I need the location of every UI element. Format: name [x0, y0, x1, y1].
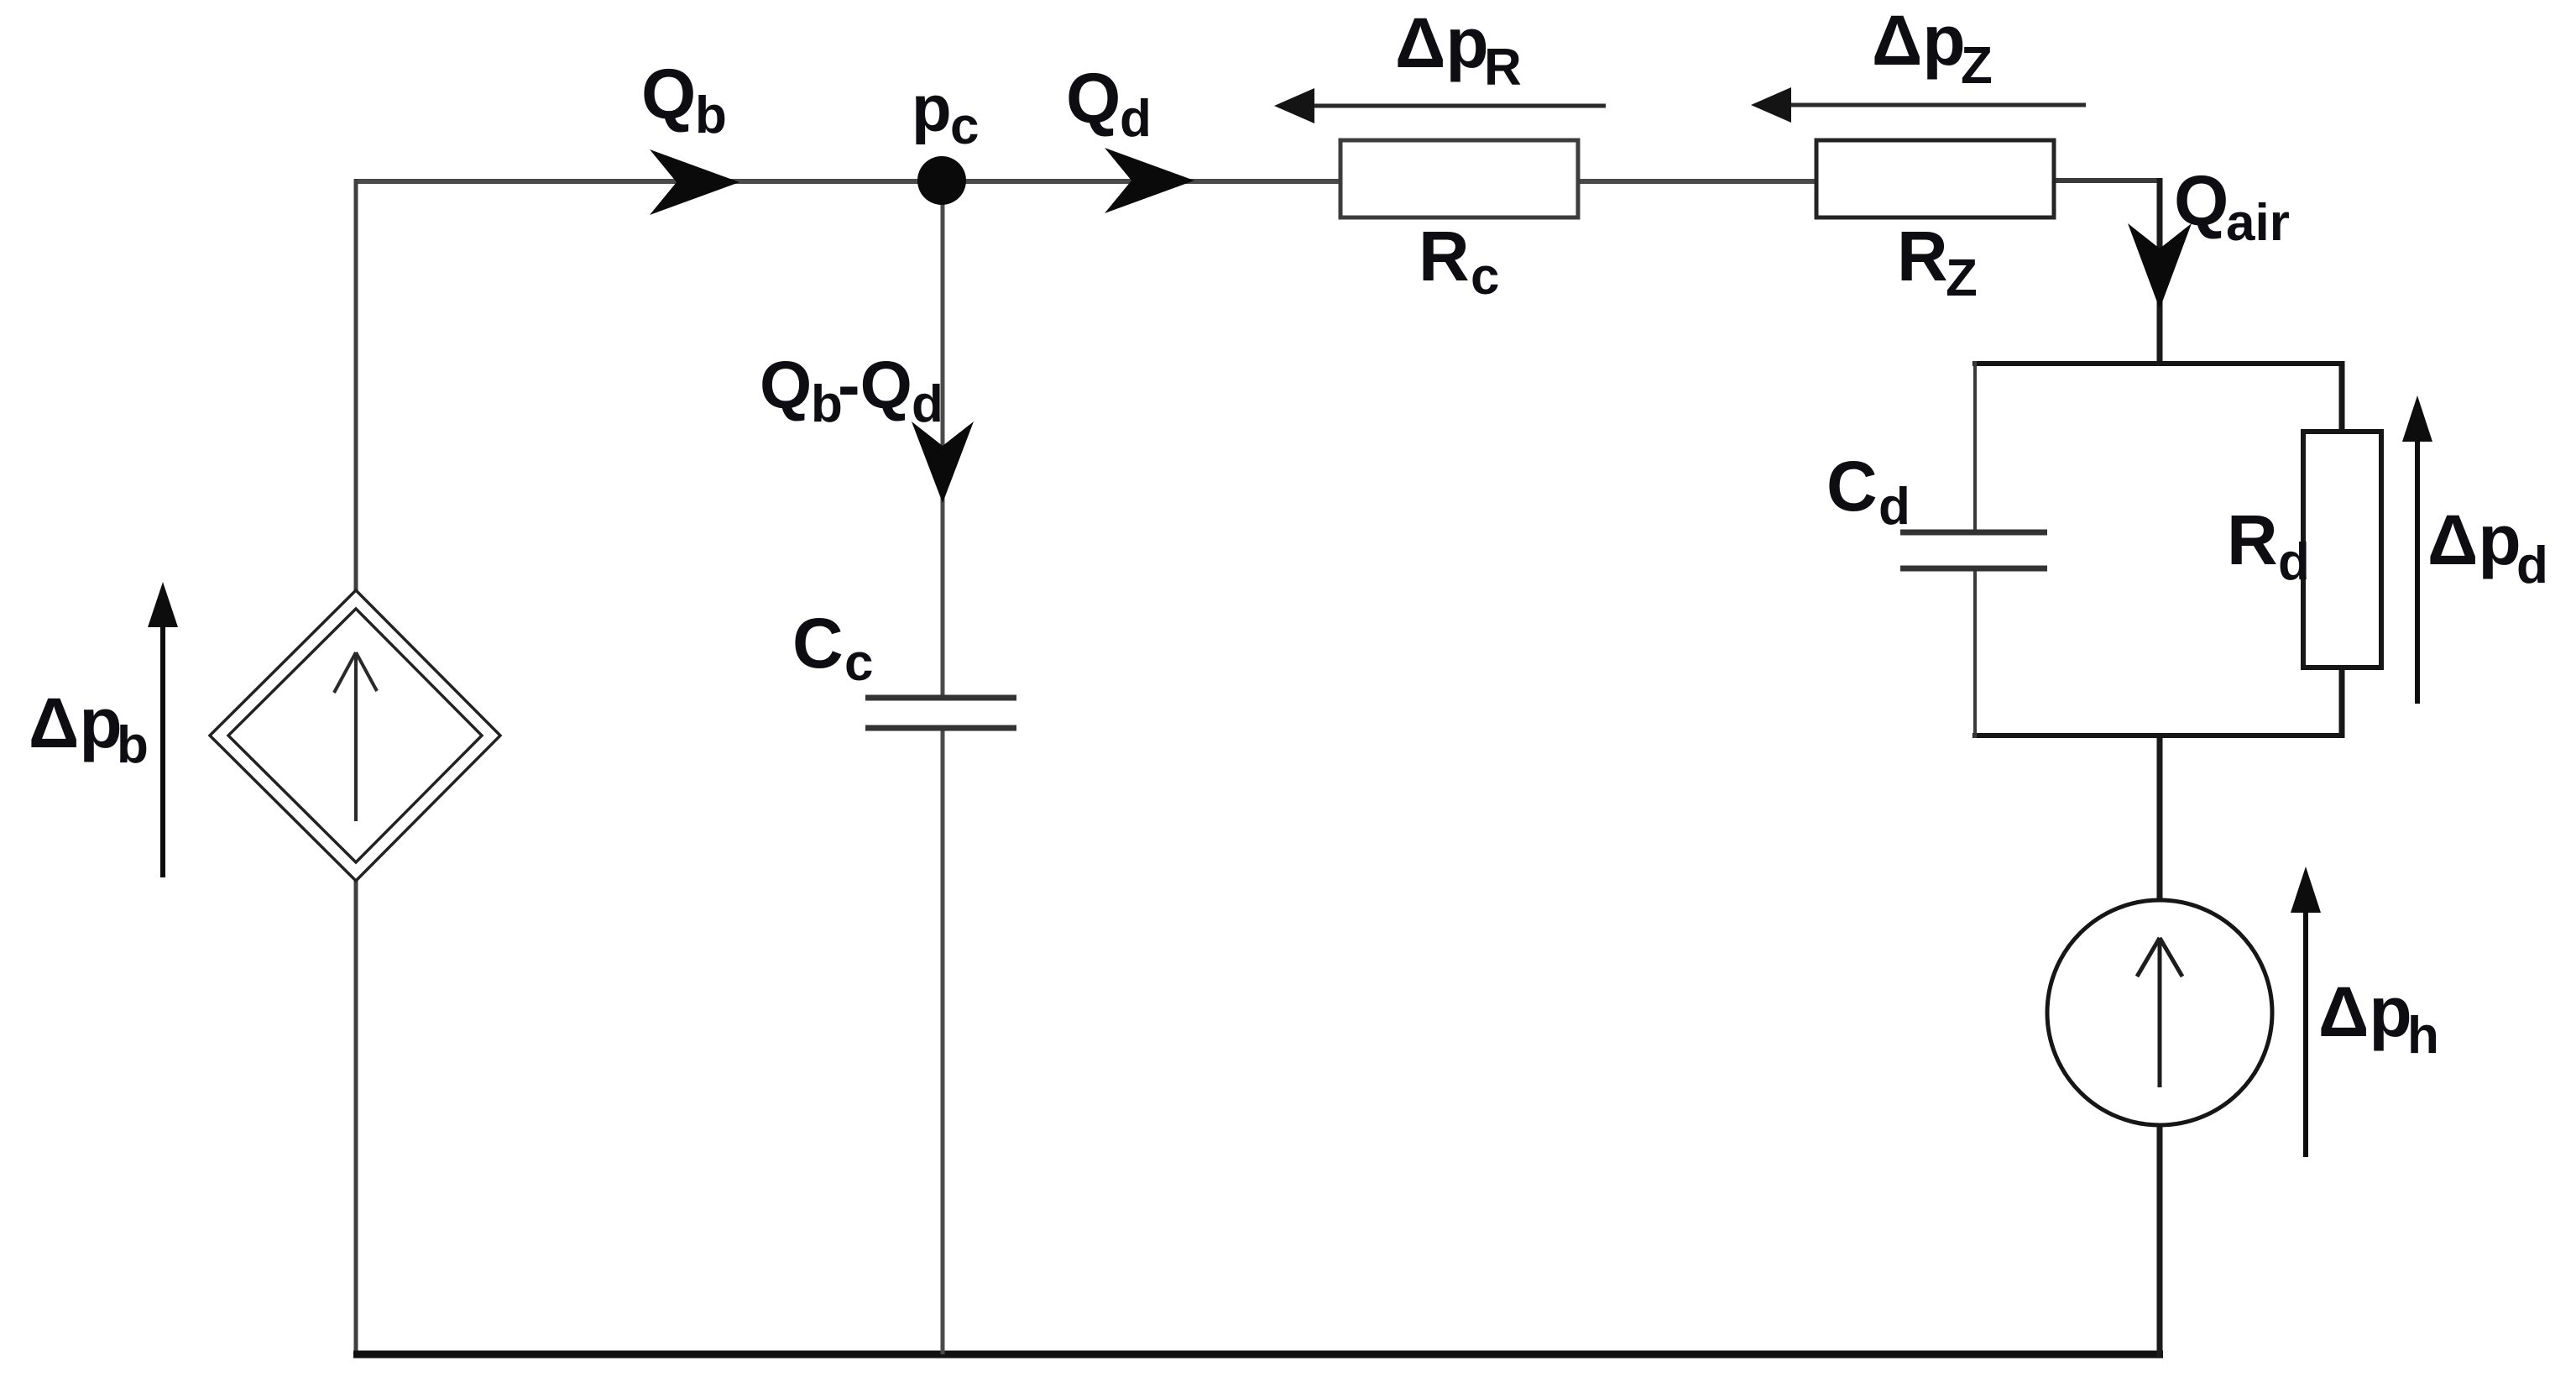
svg-text:d: d [912, 375, 943, 433]
dependent source (diamond) inner outline [228, 609, 482, 862]
svg-text:-Q: -Q [838, 348, 912, 422]
wire from box bottom to circle source [2157, 736, 2163, 900]
svg-text:Z: Z [1946, 249, 1978, 307]
dependent source (diamond) outer outline [210, 590, 500, 881]
label dPd [2427, 500, 2548, 594]
svg-text:Q: Q [641, 55, 696, 134]
label dPZ [1872, 1, 1993, 95]
pressure arrow dPZ (left, above Rz) [1751, 87, 2086, 123]
capacitor Cc plates [865, 698, 1016, 728]
svg-text:R: R [1897, 217, 1948, 296]
parallel box bottom edge [1972, 733, 2344, 738]
parallel box top edge [1972, 361, 2344, 366]
svg-text:b: b [695, 86, 727, 144]
svg-text:Q: Q [1066, 59, 1121, 138]
wire top horizontal from source to node pc [356, 179, 942, 184]
label dPb [29, 683, 149, 774]
parallel box left edge upper segment [1973, 361, 1977, 532]
parallel box right edge lower segment [2339, 668, 2345, 738]
wire left vertical from diamond source to bottom wire [354, 880, 358, 1357]
wire between Rc and Rz [1578, 179, 1816, 184]
svg-text:Δp: Δp [2427, 500, 2521, 579]
flow arrowhead Qd on top wire [1105, 148, 1194, 213]
label Cc [792, 604, 873, 692]
label Cd [1826, 447, 1910, 536]
svg-text:Δp: Δp [1395, 3, 1489, 82]
node pc junction dot [917, 156, 966, 205]
svg-text:Δp: Δp [29, 683, 123, 762]
svg-text:R: R [1419, 217, 1470, 296]
svg-text:Δp: Δp [2318, 972, 2412, 1051]
label Rd [2227, 500, 2310, 591]
pressure arrow dPd (up, right of Rd) [2402, 395, 2432, 704]
svg-text:b: b [117, 716, 149, 774]
wire left vertical from top corner to diamond source [354, 179, 358, 591]
label Qd [1066, 59, 1152, 148]
label dPR [1395, 3, 1522, 97]
svg-text:R: R [2227, 500, 2278, 579]
label dPh [2318, 972, 2439, 1065]
svg-text:C: C [792, 604, 844, 683]
wire right vertical down to parallel box [2157, 178, 2163, 366]
svg-text:d: d [2278, 533, 2310, 591]
wire from circle source to bottom wire [2157, 1126, 2163, 1357]
svg-text:c: c [950, 97, 979, 155]
flow arrowhead Qair down right branch [2128, 223, 2192, 309]
arrow inside diamond source [334, 652, 377, 821]
svg-text:C: C [1826, 447, 1878, 526]
label Qb-Qd [760, 348, 943, 433]
resistor Rz [1816, 140, 2054, 217]
arrow inside circle source [2137, 938, 2182, 1087]
flow arrowhead Qb on top wire [650, 149, 739, 215]
svg-text:c: c [844, 634, 873, 692]
label Qb [641, 55, 727, 144]
pressure arrow dPR (left, above Rc) [1274, 88, 1606, 123]
svg-text:d: d [1120, 90, 1152, 148]
resistor Rd [2303, 432, 2381, 668]
wire middle vertical from capacitor Cc to bottom wire [941, 728, 945, 1354]
capacitor Cd plates [1900, 532, 2047, 568]
svg-text:d: d [2516, 537, 2548, 594]
svg-text:Δp: Δp [1872, 1, 1966, 80]
flow arrowhead Qb-Qd down middle branch [912, 421, 974, 503]
resistor Rc [1340, 140, 1578, 217]
label pc [912, 71, 979, 155]
wire middle vertical from node pc to capacitor Cc [941, 181, 945, 698]
svg-text:p: p [912, 71, 952, 145]
wire from Rz to top-right corner [2054, 178, 2160, 183]
svg-text:Q: Q [760, 348, 812, 422]
svg-text:air: air [2226, 194, 2290, 252]
pressure arrow dPh (up, right of circle) [2291, 867, 2321, 1157]
parallel box left edge lower segment [1973, 568, 1977, 738]
svg-text:Z: Z [1961, 37, 1993, 95]
svg-text:c: c [1471, 248, 1499, 306]
svg-text:Q: Q [2174, 161, 2229, 240]
bottom wire [353, 1351, 2163, 1359]
svg-text:h: h [2407, 1007, 2439, 1065]
svg-text:d: d [1878, 478, 1910, 536]
wire top horizontal from node pc to resistor Rc [942, 179, 1340, 184]
label Rc [1419, 217, 1499, 306]
label Qair [2174, 161, 2290, 252]
label Rz [1897, 217, 1978, 307]
pressure arrow dPb (up, left of diamond) [148, 582, 178, 877]
parallel box right edge upper segment [2339, 361, 2345, 432]
current source circle [2047, 900, 2272, 1125]
svg-text:R: R [1484, 39, 1522, 97]
